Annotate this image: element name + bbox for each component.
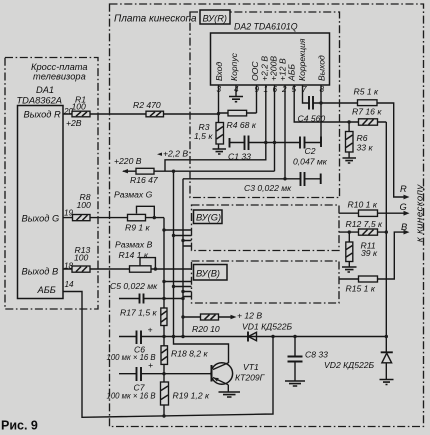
- svg-text:R9 1 к: R9 1 к: [125, 223, 151, 233]
- svg-text:Выход G: Выход G: [22, 214, 60, 224]
- svg-text:R15 1 к: R15 1 к: [346, 284, 376, 294]
- svg-text:Выход R: Выход R: [24, 110, 61, 120]
- svg-text:3: 3: [217, 85, 222, 94]
- svg-text:С4 560: С4 560: [298, 114, 326, 124]
- svg-text:19: 19: [64, 209, 74, 218]
- svg-text:R19 1,2 к: R19 1,2 к: [173, 391, 210, 401]
- svg-text:R4 68 к: R4 68 к: [227, 120, 257, 130]
- svg-text:Выход В: Выход В: [22, 267, 59, 277]
- svg-text:Корпус: Корпус: [229, 52, 239, 81]
- svg-text:R2 470: R2 470: [133, 100, 161, 110]
- svg-text:1: 1: [264, 85, 269, 94]
- svg-text:100: 100: [72, 102, 87, 112]
- svg-text:R16 47: R16 47: [130, 175, 159, 185]
- svg-text:100 мк × 16 В: 100 мк × 16 В: [107, 392, 156, 401]
- svg-text:0,047 мк: 0,047 мк: [293, 157, 328, 167]
- svg-text:Размах G: Размах G: [114, 190, 153, 200]
- svg-text:АББ: АББ: [37, 285, 56, 295]
- svg-text:2: 2: [281, 85, 287, 94]
- svg-text:R14 1 к: R14 1 к: [119, 250, 149, 260]
- svg-text:R20 10: R20 10: [192, 324, 220, 334]
- svg-text:Плата кинескопа: Плата кинескопа: [114, 14, 197, 25]
- svg-text:18: 18: [64, 262, 74, 271]
- svg-text:9: 9: [255, 85, 260, 94]
- svg-text:ВУ(R): ВУ(R): [203, 14, 228, 24]
- svg-text:С2: С2: [305, 146, 316, 156]
- svg-text:R18 8,2 к: R18 8,2 к: [171, 349, 208, 359]
- svg-text:телевизора: телевизора: [33, 72, 86, 82]
- svg-text:+2В: +2В: [66, 118, 82, 128]
- svg-text:В: В: [401, 222, 407, 232]
- svg-text:Вход: Вход: [214, 62, 224, 81]
- svg-text:С3 0,022 мк: С3 0,022 мк: [244, 183, 292, 193]
- svg-text:+220 В: +220 В: [114, 156, 142, 166]
- svg-text:Рис. 9: Рис. 9: [1, 419, 38, 433]
- svg-text:+2,2 В: +2,2 В: [163, 149, 188, 159]
- svg-text:ВУ(В): ВУ(В): [196, 269, 220, 279]
- svg-text:DA2 ТDА6101Q: DA2 ТDА6101Q: [234, 22, 298, 32]
- svg-text:С5 0,022 мк: С5 0,022 мк: [110, 281, 158, 291]
- svg-text:DA1: DA1: [36, 85, 54, 95]
- svg-text:КТ209Г: КТ209Г: [235, 373, 266, 383]
- svg-text:R7 16 к: R7 16 к: [352, 107, 382, 117]
- svg-text:R: R: [400, 184, 407, 194]
- svg-text:Выход: Выход: [317, 55, 327, 81]
- svg-text:ВУ(G): ВУ(G): [196, 213, 221, 223]
- svg-text:VD1 КД522Б: VD1 КД522Б: [242, 322, 293, 332]
- svg-text:+: +: [148, 325, 153, 335]
- svg-text:6: 6: [273, 85, 278, 94]
- svg-text:1,5 к: 1,5 к: [194, 131, 213, 141]
- svg-text:к кинескопу: к кинескопу: [415, 183, 426, 242]
- svg-text:R5 1 к: R5 1 к: [354, 87, 380, 97]
- svg-text:С1 33: С1 33: [228, 152, 251, 162]
- svg-text:R6: R6: [357, 133, 368, 143]
- svg-text:R12 7,5 к: R12 7,5 к: [346, 219, 383, 229]
- svg-text:G: G: [400, 202, 407, 212]
- svg-text:Размах В: Размах В: [115, 240, 153, 250]
- svg-text:100: 100: [77, 200, 92, 210]
- svg-text:39 к: 39 к: [361, 248, 378, 258]
- svg-text:5: 5: [292, 85, 297, 94]
- svg-text:4: 4: [234, 85, 239, 94]
- svg-text:100: 100: [74, 253, 89, 263]
- svg-text:R10 1 к: R10 1 к: [348, 200, 378, 210]
- svg-text:+ 12 В: + 12 В: [237, 311, 262, 321]
- svg-text:R17 1,5 к: R17 1,5 к: [120, 308, 157, 318]
- svg-text:С8 33: С8 33: [305, 350, 328, 360]
- svg-text:Коррекция: Коррекция: [297, 38, 307, 81]
- svg-text:ТDА8362А: ТDА8362А: [17, 96, 62, 106]
- svg-text:VT1: VT1: [243, 362, 259, 372]
- svg-text:+: +: [148, 360, 153, 370]
- svg-text:8: 8: [320, 85, 325, 94]
- svg-text:АББ: АББ: [287, 64, 297, 82]
- svg-text:Кросс-плата: Кросс-плата: [31, 62, 88, 72]
- svg-text:33 к: 33 к: [357, 143, 374, 153]
- svg-text:VD2 КД522Б: VD2 КД522Б: [324, 360, 375, 370]
- svg-text:14: 14: [65, 280, 75, 289]
- svg-text:7: 7: [302, 85, 307, 94]
